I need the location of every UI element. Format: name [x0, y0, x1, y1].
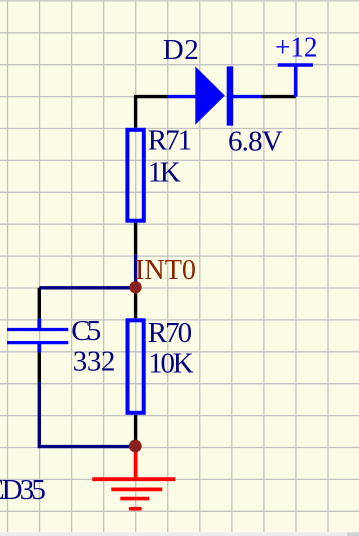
- svg-text:ED35: ED35: [0, 474, 46, 506]
- svg-text:+12: +12: [275, 31, 318, 63]
- svg-text:R71: R71: [148, 124, 192, 156]
- svg-text:R70: R70: [148, 317, 192, 349]
- svg-text:1K: 1K: [148, 156, 181, 188]
- svg-text:332: 332: [73, 345, 116, 377]
- svg-text:10K: 10K: [148, 347, 194, 379]
- svg-text:6.8V: 6.8V: [228, 126, 283, 158]
- svg-text:INT0: INT0: [135, 254, 196, 286]
- svg-text:D2: D2: [163, 34, 199, 66]
- svg-text:C5: C5: [71, 315, 101, 347]
